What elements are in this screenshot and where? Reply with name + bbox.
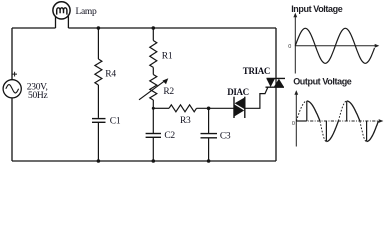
node dot R2 bottom junction [152,107,155,110]
svg-text:C2: C2 [164,131,175,141]
node dot top R1 [152,26,156,30]
node dot bottom C1 [97,159,101,163]
lamp L1 [53,2,70,28]
input plot x-axis [295,45,376,47]
wire left vertical upper [11,28,13,80]
TRIAC T1 [266,78,286,87]
node dot R3 right junction [207,107,211,111]
svg-text:DIAC: DIAC [227,87,249,97]
wire right vertical (TRIAC branch) [275,28,277,78]
svg-text:0: 0 [288,44,291,50]
svg-text:TRIAC: TRIAC [243,66,270,76]
resistor R4 [95,28,102,118]
input plot y-axis [294,16,296,74]
wire left vertical lower [11,98,13,161]
output plot y-axis [295,93,297,147]
node dot top R4 [97,26,101,30]
output firing vertical 3 up [346,101,348,121]
output solid descent 2 [347,101,360,121]
output waveform solid axis segment 0-90deg [296,120,307,122]
wire top left horizontal [12,27,56,29]
output dashed rise 1 [296,101,307,121]
svg-text:Lamp: Lamp [76,7,98,17]
output solid rise 2 [367,121,379,142]
svg-text:C3: C3 [220,131,231,141]
svg-text:R1: R1 [162,51,173,61]
wire top right horizontal [68,27,276,29]
svg-text:R4: R4 [105,69,116,79]
svg-text:0: 0 [292,121,295,127]
resistor R1 [150,28,157,75]
resistor R3 [153,105,234,112]
potentiometer R2 [139,75,166,134]
output firing vertical 1 up [306,101,308,121]
svg-text:C1: C1 [110,116,121,126]
output solid rise 1 [326,121,338,142]
output firing vertical 2 down [325,121,327,142]
output dashed descent 1 [320,121,326,142]
svg-text:R3: R3 [180,116,191,126]
wire DIAC to TRIAC gate [245,87,268,108]
output plot x-axis dash-dot [296,120,380,122]
capacitor C3 [201,108,218,161]
svg-text:Input Voltage: Input Voltage [291,4,343,14]
svg-text:50Hz: 50Hz [28,91,47,101]
node dot bottom C3 [207,159,211,163]
svg-text:R2: R2 [163,87,174,97]
input sine wave [295,28,374,63]
output solid descent 1 [307,101,320,121]
node dot bottom C2 [152,159,156,163]
capacitor C1 [92,119,106,161]
capacitor C2 [146,134,161,162]
output firing vertical 4 down [366,121,368,142]
output dashed rise 2 [338,101,346,121]
wire bottom horizontal [12,160,276,162]
output dashed descent 2 [360,121,367,142]
DIAC D1 [234,97,245,118]
R2 arrowhead [163,78,169,84]
AC source V1 230V 50Hz [3,72,21,98]
svg-text:Output Voltage: Output Voltage [293,76,352,86]
